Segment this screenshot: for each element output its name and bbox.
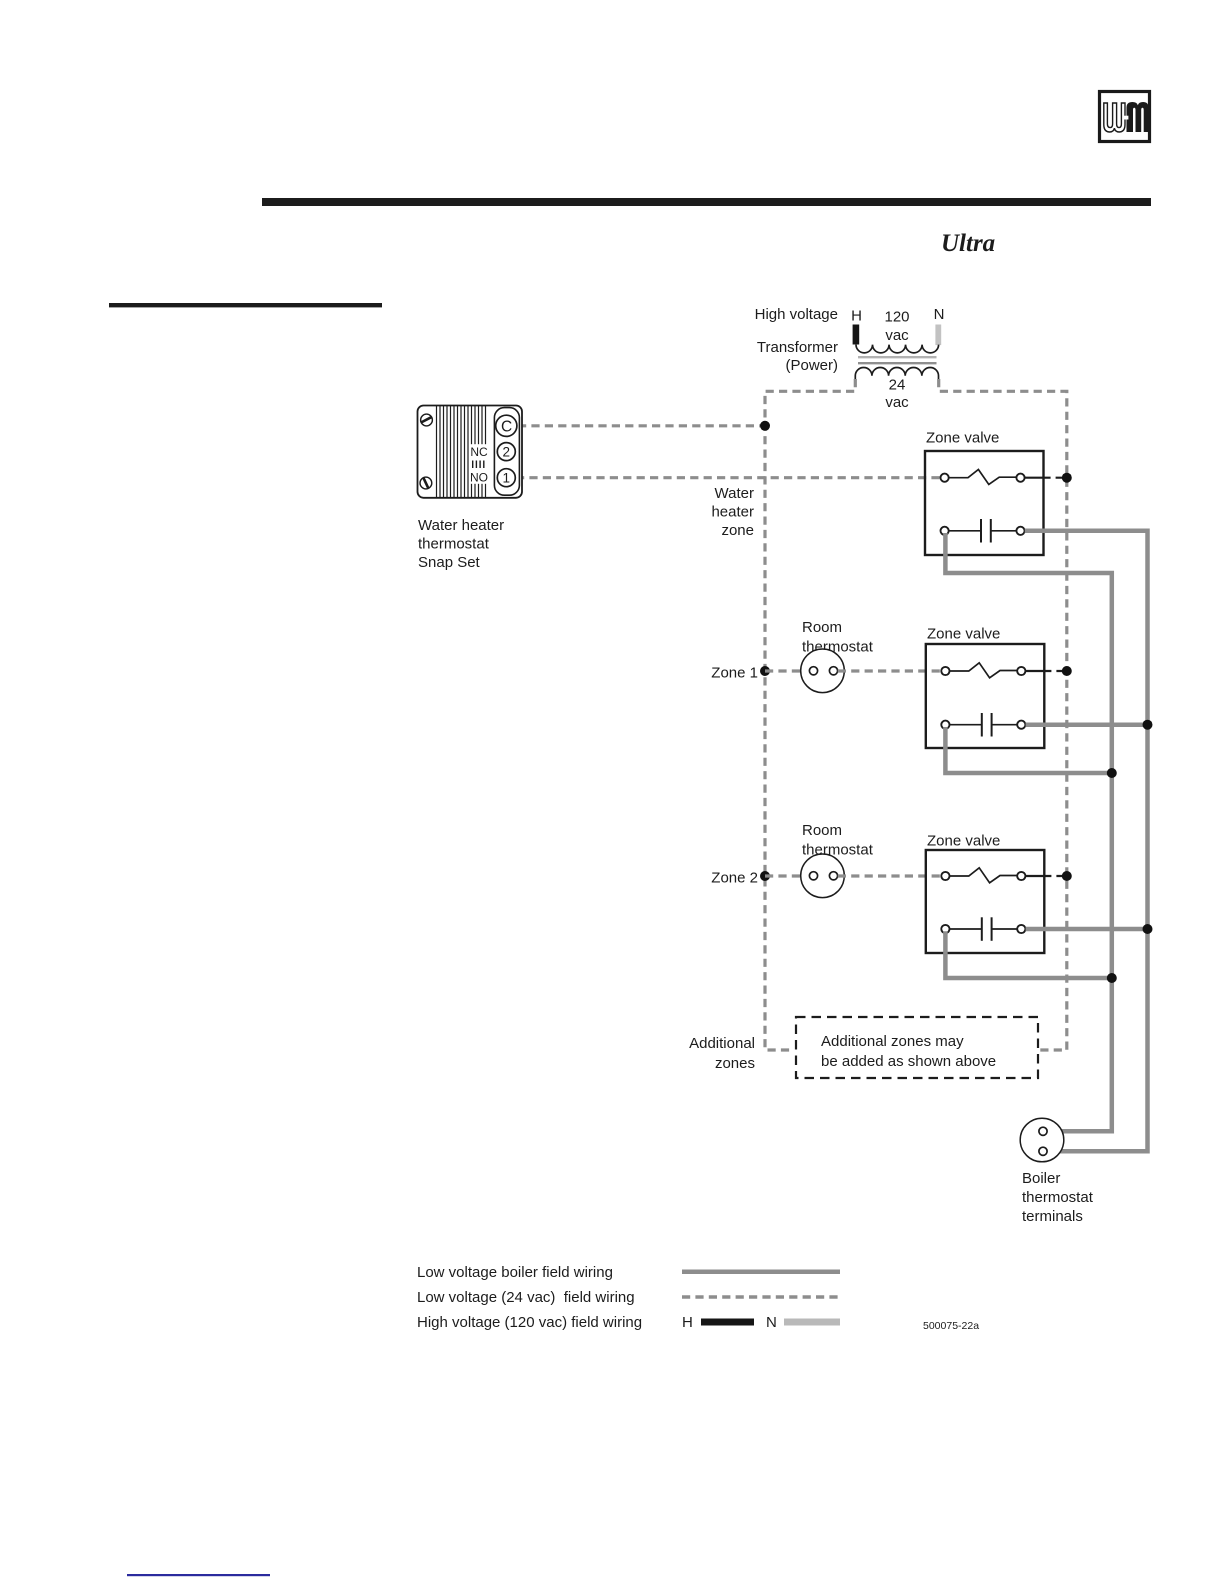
node: zone valve 3 on right bus bbox=[1062, 871, 1072, 881]
zone valve 3 bbox=[926, 833, 1045, 954]
top heavy rule bbox=[262, 198, 1151, 206]
terminal strip pill bbox=[494, 408, 519, 496]
legend bbox=[417, 1264, 777, 1331]
bottom blue rule bbox=[127, 1574, 270, 1576]
svg-text:vac: vac bbox=[885, 327, 909, 344]
svg-text:Room: Room bbox=[802, 822, 842, 839]
switch in zone valve 1 bbox=[949, 470, 1017, 485]
wire: thermostat C to bus bbox=[518, 424, 765, 427]
svg-text:Transformer: Transformer bbox=[757, 339, 838, 356]
node on right chain at zone 2 bbox=[1143, 720, 1153, 730]
logo hyphen bbox=[1123, 116, 1129, 120]
svg-text:Zone 2: Zone 2 bbox=[711, 870, 758, 887]
svg-text:500075-22a: 500075-22a bbox=[923, 1320, 979, 1332]
svg-text:Low voltage (24 vac) field wi: Low voltage (24 vac) field wiring bbox=[417, 1289, 635, 1306]
terminal 2 bbox=[497, 443, 515, 461]
water heater thermostat caption bbox=[418, 517, 504, 571]
svg-text:Ultra: Ultra bbox=[941, 230, 995, 257]
svg-text:2: 2 bbox=[503, 444, 511, 459]
left section rule bbox=[109, 303, 382, 307]
svg-text:Zone valve: Zone valve bbox=[926, 430, 999, 447]
svg-text:N: N bbox=[766, 1314, 777, 1331]
svg-text:be added as shown above: be added as shown above bbox=[821, 1053, 996, 1070]
svg-text:120: 120 bbox=[884, 309, 909, 326]
capacitor (motor) in zone valve 2 bbox=[950, 724, 982, 726]
boiler wiring: zone valve 2 right branch bbox=[1026, 722, 1148, 727]
wire: zone 1 bus to thermostat bbox=[765, 669, 810, 672]
svg-text:24: 24 bbox=[889, 377, 906, 394]
transformer N lead (neutral) bbox=[935, 325, 941, 346]
additional zones dashed note box bbox=[796, 1017, 1038, 1078]
svg-text:High voltage: High voltage bbox=[755, 306, 838, 323]
transformer H lead (hot) bbox=[853, 325, 860, 345]
boiler thermostat terminals bbox=[1020, 1118, 1093, 1225]
transformer primary coil 120vac bbox=[856, 345, 939, 353]
water heater zone label bbox=[711, 485, 754, 539]
wire: zone valve 2 switch to bus (black dashed) bbox=[1025, 670, 1063, 672]
switch in zone valve 2 bbox=[950, 663, 1018, 678]
boiler wiring: zone valve 3 right branch bbox=[1026, 927, 1148, 932]
node on right chain at zone 3 bbox=[1143, 924, 1153, 934]
contact ticks bbox=[473, 461, 484, 469]
node: zone 1 tap bbox=[760, 666, 770, 676]
svg-text:Water: Water bbox=[715, 485, 754, 502]
zone valve 1 bbox=[925, 430, 1044, 556]
svg-text:terminals: terminals bbox=[1022, 1208, 1083, 1225]
svg-text:zones: zones bbox=[715, 1055, 755, 1072]
svg-text:N: N bbox=[934, 306, 945, 323]
transformer core bbox=[858, 356, 937, 358]
transformer T1 labels bbox=[755, 306, 945, 411]
boiler wiring: left-terminal chain (gray) bbox=[945, 533, 1111, 1131]
boiler wiring: right-terminal chain (gray) bbox=[1025, 531, 1148, 1152]
svg-text:C: C bbox=[501, 418, 512, 435]
svg-text:Water heater: Water heater bbox=[418, 517, 504, 534]
wire: zone 2 thermostat to zone valve 3 bbox=[838, 874, 942, 877]
legend: low voltage boiler wiring sample bbox=[682, 1270, 840, 1275]
node on left chain at zone 3 bbox=[1107, 973, 1117, 983]
boiler wiring: zone valve 3 branch bbox=[945, 931, 1111, 978]
svg-text:Boiler: Boiler bbox=[1022, 1170, 1060, 1187]
screw bottom bbox=[420, 477, 432, 489]
capacitor (motor) in zone valve 1 bbox=[949, 530, 981, 532]
terminal 1 bbox=[497, 469, 515, 487]
hatch lines bbox=[437, 406, 486, 497]
svg-text:heater: heater bbox=[711, 504, 754, 521]
Weil-McLain logo box bbox=[1100, 92, 1150, 142]
svg-text:High voltage (120 vac) field w: High voltage (120 vac) field wiring bbox=[417, 1314, 642, 1331]
svg-text:Zone valve: Zone valve bbox=[927, 833, 1000, 850]
svg-text:Low voltage boiler field wirin: Low voltage boiler field wiring bbox=[417, 1264, 613, 1281]
svg-text:Additional zones may: Additional zones may bbox=[821, 1033, 964, 1050]
svg-text:1: 1 bbox=[503, 470, 511, 485]
switch in zone valve 3 bbox=[950, 868, 1018, 883]
legend: H high voltage sample bbox=[701, 1319, 754, 1326]
24vac dashed bus: left leg bbox=[765, 379, 855, 1050]
svg-text:(Power): (Power) bbox=[785, 357, 838, 374]
transformer secondary coil 24vac bbox=[855, 367, 938, 379]
wire: zone 2 bus to thermostat bbox=[765, 874, 810, 877]
svg-text:Zone valve: Zone valve bbox=[927, 626, 1000, 643]
svg-text:H: H bbox=[682, 1314, 693, 1331]
logo m glyph bbox=[1127, 102, 1149, 132]
svg-text:vac: vac bbox=[885, 394, 909, 411]
room thermostat zone 1 bbox=[801, 619, 874, 693]
screw top bbox=[421, 414, 433, 426]
capacitor (motor) in zone valve 3 bbox=[950, 928, 982, 930]
svg-text:Zone 1: Zone 1 bbox=[711, 665, 758, 682]
room thermostat zone 2 bbox=[801, 822, 874, 898]
svg-text:thermostat: thermostat bbox=[418, 536, 490, 553]
24vac dashed bus: right leg bbox=[939, 379, 1067, 1050]
svg-text:Additional: Additional bbox=[689, 1035, 755, 1052]
node: zone valve 1 on right bus bbox=[1062, 473, 1072, 483]
wire: zone valve 1 switch to bus (black dashed) bbox=[1025, 477, 1063, 479]
node: zone valve 2 on right bus bbox=[1062, 666, 1072, 676]
boiler wiring: zone valve 2 branch bbox=[945, 727, 1111, 773]
terminal C bbox=[496, 415, 517, 436]
svg-text:Snap Set: Snap Set bbox=[418, 554, 481, 571]
water heater thermostat box bbox=[418, 406, 523, 498]
svg-text:NC: NC bbox=[470, 445, 488, 459]
node: zone 2 tap bbox=[760, 871, 770, 881]
legend: 24vac dashed sample bbox=[682, 1295, 840, 1298]
wire: zone valve 3 switch to bus (black dashed) bbox=[1025, 875, 1063, 877]
svg-text:H: H bbox=[851, 308, 862, 325]
legend: N high voltage sample bbox=[784, 1319, 840, 1326]
logo w glyph bbox=[1104, 103, 1125, 132]
svg-text:zone: zone bbox=[721, 522, 754, 539]
svg-text:thermostat: thermostat bbox=[1022, 1189, 1094, 1206]
wire: zone 1 thermostat to zone valve 2 bbox=[838, 669, 942, 672]
node: C junction bbox=[760, 421, 770, 431]
svg-text:Room: Room bbox=[802, 619, 842, 636]
zone valve 2 bbox=[926, 626, 1045, 749]
svg-text:NO: NO bbox=[470, 471, 488, 485]
wire: thermostat 1 to zone valve 1 bbox=[516, 476, 941, 479]
node on left chain at zone 2 bbox=[1107, 768, 1117, 778]
